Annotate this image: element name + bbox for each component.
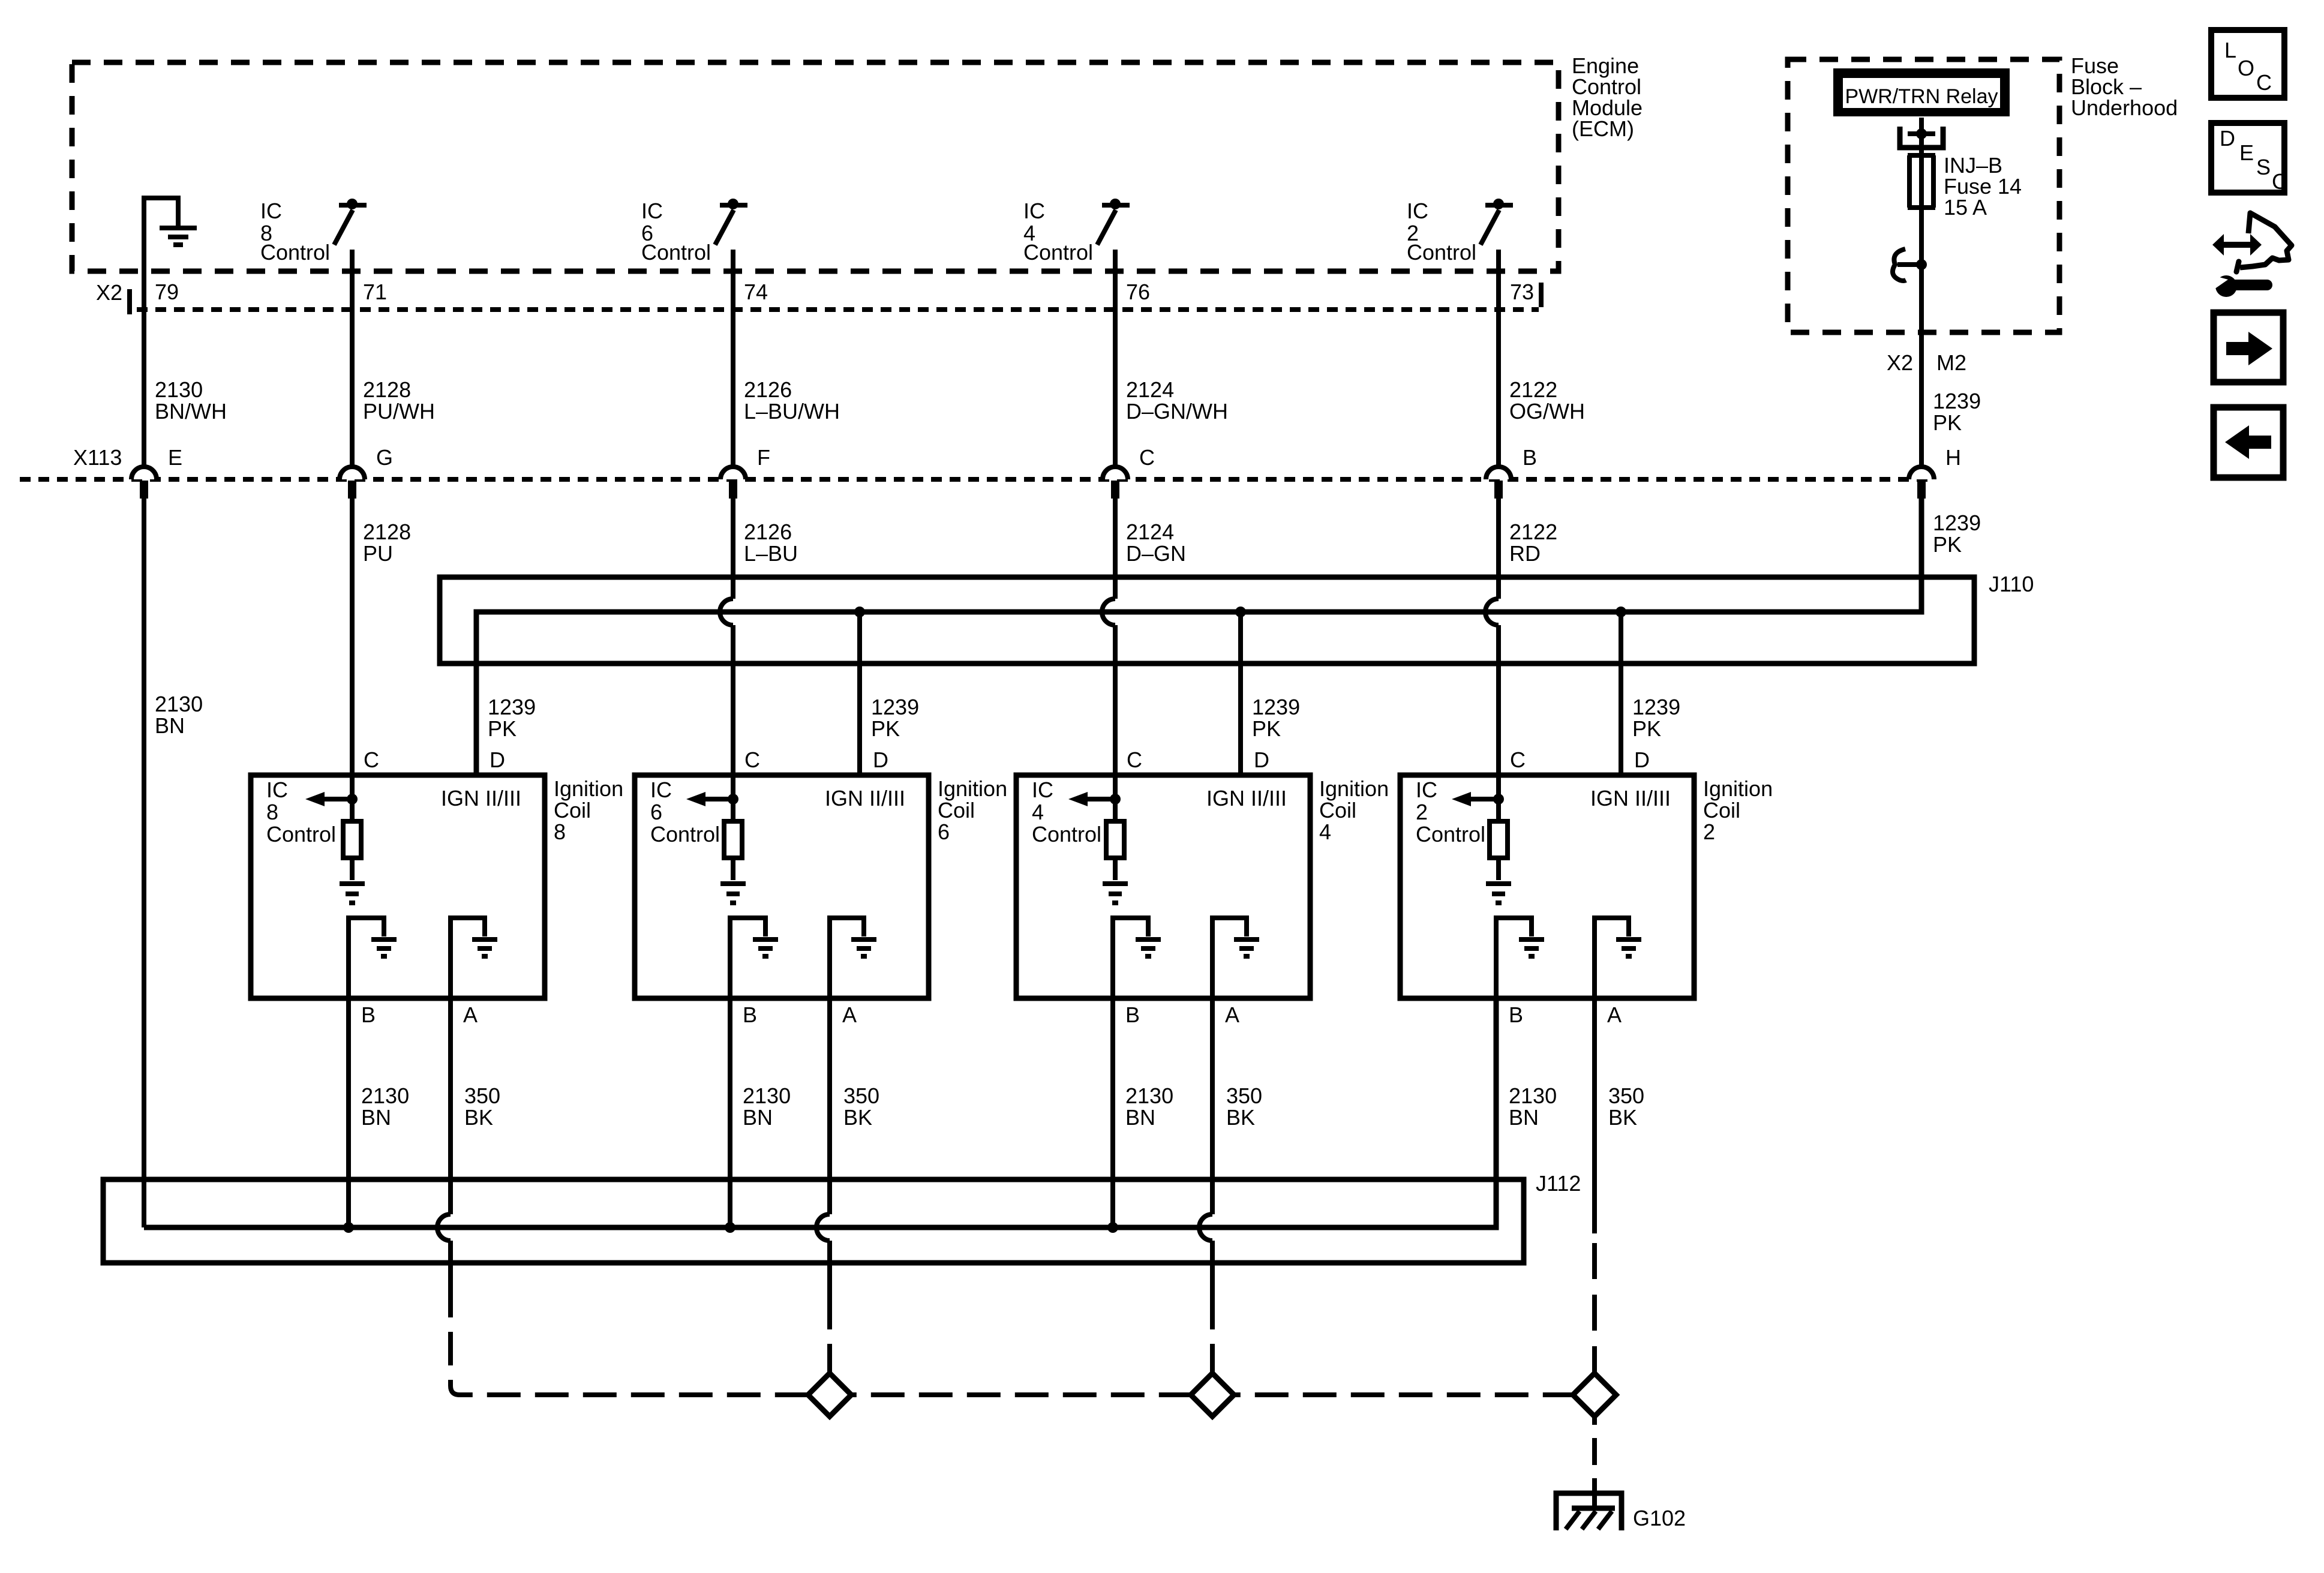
svg-text:B: B [743,1002,757,1027]
svg-text:8: 8 [266,800,278,824]
svg-text:F: F [757,445,770,470]
svg-text:IGN II/III: IGN II/III [1590,786,1671,810]
svg-text:IGN II/III: IGN II/III [1206,786,1287,810]
connector pin X113-G [340,445,393,499]
label IC 4 Control [1023,199,1093,265]
svg-text:76: 76 [1126,280,1150,304]
svg-text:IC: IC [641,199,663,223]
wire 2130 BN/WH (pin E) [144,271,227,466]
svg-text:BK: BK [1608,1105,1637,1130]
wire 2124 D&#8211;GN/WH (pin C) [1115,250,1228,466]
svg-text:J110: J110 [1989,572,2034,596]
splice J112 bus ring [103,1171,1581,1263]
label 1239 PK [1252,695,1300,741]
label 1239 PK [871,695,919,741]
wire 2122 OG/WH (pin B) [1499,250,1585,466]
label IC 2 Control [1407,199,1476,265]
wire 350 BK from coil 8 pin A [437,998,500,1296]
wire 1239 PK inner rail J110 [476,499,1921,775]
svg-text:A: A [842,1002,857,1027]
connector X2 row (ECM) [96,280,1541,314]
svg-text:G: G [376,445,393,470]
svg-text:Ignition: Ignition [1319,776,1389,801]
wire 350 BK from coil 2 pin A [1595,998,1644,1233]
coil 2 secondary ground A side [1595,918,1641,998]
coil 6 secondary ground B side [730,918,778,998]
wire 2122 RD to coil [1485,499,1557,775]
svg-text:1239: 1239 [871,695,919,719]
wire 2126 L&#8211;BU to coil [720,499,798,775]
svg-text:D–GN/WH: D–GN/WH [1126,399,1228,424]
connector pin X113-B [1486,445,1537,499]
coil 8 secondary ground B side [349,918,397,998]
svg-text:C: C [1510,748,1526,772]
svg-text:BN/WH: BN/WH [155,399,227,424]
connector pin X113-H [1909,445,1961,499]
wire 2124 D&#8211;GN to coil [1102,499,1186,775]
coil 8 secondary ground A side [451,918,497,998]
svg-text:E: E [168,445,182,470]
svg-text:Control: Control [641,240,711,265]
svg-text:D: D [873,748,888,772]
svg-text:PK: PK [871,716,900,741]
wire 1239 PK labels (feed) [1933,389,1981,435]
label 1239 PK [1632,695,1680,741]
svg-text:D–GN: D–GN [1126,541,1186,566]
wire 2130 BN from coil 4 pin B [1113,998,1173,1227]
icon DESC [2211,123,2287,194]
svg-text:PK: PK [488,716,517,741]
svg-text:O: O [2238,56,2254,80]
svg-text:2130: 2130 [1509,1083,1557,1108]
svg-text:IC: IC [266,778,288,802]
wire 2130 BN (left, to J112) [144,499,203,1227]
coil 4 primary input, arrow, resistor, ground [1068,775,1128,903]
svg-text:X2: X2 [1887,350,1913,375]
splice diamond S1383 on 350 BK [808,1373,851,1416]
svg-text:C: C [364,748,379,772]
svg-text:D: D [1254,748,1269,772]
wire 2130 BN from coil 8 pin B [349,998,409,1227]
svg-text:PK: PK [1632,716,1661,741]
svg-text:IC: IC [1407,199,1428,223]
svg-text:2130: 2130 [743,1083,791,1108]
wire 2130 BN inner rail J112 [144,998,1496,1227]
svg-text:(ECM): (ECM) [1572,116,1634,141]
connector pin X113-E [131,445,182,499]
svg-text:6: 6 [650,800,662,824]
svg-text:PU: PU [363,541,393,566]
svg-text:1239: 1239 [1933,511,1981,535]
svg-text:2130: 2130 [155,692,203,716]
svg-text:350: 350 [1226,1083,1262,1108]
label 1239 PK [488,695,536,741]
svg-text:1239: 1239 [1252,695,1300,719]
svg-text:IC: IC [650,778,672,802]
svg-text:71: 71 [363,280,387,304]
svg-text:IC: IC [260,199,282,223]
switch IC 8 Control (ECM driver) [334,199,367,245]
svg-text:L: L [2224,38,2236,62]
svg-text:2: 2 [1703,819,1715,844]
svg-text:J112: J112 [1536,1171,1581,1196]
coil 6 primary input, arrow, resistor, ground [686,775,746,903]
svg-text:BK: BK [1226,1105,1255,1130]
svg-text:IGN II/III: IGN II/III [825,786,905,810]
coil 4 secondary ground A side [1212,918,1259,998]
svg-text:B: B [1509,1002,1523,1027]
ECM label [1572,53,1643,141]
junction dot J112 (coil 4 pin B) [1107,1222,1118,1233]
junction dot J110 / wire 1239 PK drop to coil 2 pin D [1616,607,1626,775]
svg-text:2124: 2124 [1126,377,1174,402]
svg-text:BN: BN [1125,1105,1155,1130]
svg-text:1239: 1239 [1632,695,1680,719]
svg-text:BK: BK [464,1105,493,1130]
svg-text:2: 2 [1416,800,1428,824]
svg-text:H: H [1945,445,1961,470]
svg-text:15 A: 15 A [1944,195,1987,220]
svg-text:1239: 1239 [488,695,536,719]
svg-text:D: D [490,748,505,772]
connector pin X113-C [1103,445,1155,499]
svg-text:2130: 2130 [155,377,203,402]
svg-text:350: 350 [1608,1083,1644,1108]
svg-text:Coil: Coil [1703,798,1740,822]
connector pin X113-F [720,445,770,499]
svg-text:2130: 2130 [361,1083,409,1108]
svg-text:C: C [1127,748,1142,772]
svg-text:G102: G102 [1633,1506,1686,1530]
svg-text:Ignition: Ignition [1703,776,1773,801]
coil 2 labels [1416,748,1773,1027]
svg-text:C: C [1139,445,1155,470]
svg-text:Coil: Coil [938,798,975,822]
svg-text:2122: 2122 [1509,377,1557,402]
icon arrow right [2214,313,2283,382]
svg-text:A: A [1225,1002,1239,1027]
svg-text:4: 4 [1032,800,1044,824]
coil 2 primary input, arrow, resistor, ground [1452,775,1511,903]
junction dot J110 / wire 1239 PK drop to coil 4 pin D [1235,607,1246,775]
svg-text:BN: BN [743,1105,773,1130]
svg-text:L–BU: L–BU [744,541,798,566]
coil 6 secondary ground A side [830,918,876,998]
junction dot J112 (coil 8 pin B) [343,1222,354,1233]
svg-text:OG/WH: OG/WH [1509,399,1585,424]
svg-text:350: 350 [843,1083,879,1108]
svg-text:2128: 2128 [363,520,411,544]
svg-text:2126: 2126 [744,520,792,544]
svg-text:E: E [2239,140,2254,165]
icon component view (arrow + outline + wrench) [2211,213,2292,297]
svg-text:D: D [2220,126,2235,151]
svg-text:IGN II/III: IGN II/III [441,786,521,810]
label IC 6 Control [641,199,711,265]
svg-text:73: 73 [1510,280,1534,304]
svg-text:BN: BN [155,713,185,738]
relay output terminal [1900,127,1943,148]
coil 8 primary input, arrow, resistor, ground [305,775,365,903]
wire 350 BK dashed segments below J112 [451,1243,1595,1395]
svg-text:L–BU/WH: L–BU/WH [744,399,840,424]
fuse block box (Fuse Block - Underhood) [1788,59,2059,332]
svg-text:PK: PK [1252,716,1281,741]
coil 8 labels [266,748,623,1027]
svg-text:IC: IC [1416,778,1437,802]
junction dot J110 / wire 1239 PK drop to coil 6 pin D [854,607,865,775]
svg-text:6: 6 [938,819,950,844]
splice diamond S2658 on 350 BK [1573,1373,1616,1416]
svg-text:Ignition: Ignition [554,776,623,801]
svg-text:BK: BK [843,1105,872,1130]
svg-text:Control: Control [1416,822,1485,846]
svg-text:Underhood: Underhood [2071,95,2178,120]
coil 4 secondary ground B side [1113,918,1161,998]
svg-text:350: 350 [464,1083,500,1108]
ignition coil 8 box [251,775,545,998]
svg-text:Control: Control [260,240,330,265]
svg-text:Coil: Coil [554,798,591,822]
in-line clip connector [1893,249,1927,281]
wire relay to fuse block exit [1919,118,1924,466]
svg-text:PK: PK [1933,532,1962,557]
svg-text:Control: Control [650,822,720,846]
icon arrow left [2214,407,2283,478]
ignition coil 4 box [1016,775,1310,998]
ignition coil 2 box [1400,775,1694,998]
relay PWR/TRN Relay [1833,68,2010,116]
svg-text:Control: Control [1407,240,1476,265]
svg-text:B: B [361,1002,376,1027]
svg-text:8: 8 [554,819,566,844]
svg-text:D: D [1634,748,1650,772]
svg-text:M2: M2 [1936,350,1966,375]
svg-text:Control: Control [1032,822,1101,846]
svg-text:C: C [744,748,760,772]
wire 2128 PU/WH (pin G) [352,250,435,466]
svg-text:2128: 2128 [363,377,411,402]
splice diamond S2021 on 350 BK [1191,1373,1234,1416]
label IC 8 Control [260,199,330,265]
switch IC 6 Control (ECM driver) [715,199,747,245]
svg-text:A: A [1607,1002,1622,1027]
ignition coil 6 box [635,775,929,998]
fuse block label [2071,53,2178,120]
svg-text:74: 74 [744,280,768,304]
coil 2 secondary ground B side [1496,918,1544,998]
X2 M2 pin labels (fuse block) [1887,350,1966,375]
ground G102 [1556,1493,1686,1530]
wire 350 BK from coil 6 pin A [816,998,879,1296]
svg-text:Control: Control [1023,240,1093,265]
svg-text:79: 79 [155,280,179,304]
svg-text:C: C [2272,169,2287,194]
svg-text:PK: PK [1933,410,1962,435]
fuse INJ-B Fuse 14 15 A [1908,153,2022,220]
svg-text:Ignition: Ignition [938,776,1007,801]
switch IC 2 Control (ECM driver) [1481,199,1513,245]
svg-text:2126: 2126 [744,377,792,402]
svg-text:1239: 1239 [1933,389,1981,413]
wire 2128 PU to coil 8 [352,499,411,775]
connector X113 row [20,445,1935,479]
ground (ECM internal) [144,198,197,271]
splice J110 bus ring [440,572,2034,664]
svg-text:A: A [463,1002,478,1027]
coil 6 labels [650,748,1007,1027]
wire 350 BK from coil 4 pin A [1199,998,1262,1296]
switch IC 4 Control (ECM driver) [1097,199,1130,245]
svg-text:IC: IC [1023,199,1045,223]
svg-text:PWR/TRN Relay: PWR/TRN Relay [1845,85,1998,108]
svg-text:X113: X113 [73,445,122,470]
svg-text:B: B [1523,445,1537,470]
coil 4 labels [1032,748,1389,1027]
svg-text:BN: BN [361,1105,391,1130]
svg-text:Control: Control [266,822,336,846]
svg-text:S: S [2256,155,2271,179]
junction dot J112 (coil 6 pin B) [725,1222,735,1233]
svg-text:RD: RD [1509,541,1541,566]
wire 2130 BN from coil 6 pin B [730,998,791,1227]
svg-text:Coil: Coil [1319,798,1356,822]
svg-text:B: B [1125,1002,1140,1027]
wire to G102 [1592,1416,1597,1508]
svg-text:PU/WH: PU/WH [363,399,435,424]
wire 2130 BN from coil 2 pin B [1496,998,1557,1227]
svg-text:IC: IC [1032,778,1053,802]
ECM module box [72,62,1559,271]
wire 2126 L&#8211;BU/WH (pin F) [733,250,840,466]
X2 pin numbers [155,280,1534,304]
icon LOC [2211,30,2284,98]
svg-text:2130: 2130 [1125,1083,1173,1108]
svg-text:4: 4 [1319,819,1331,844]
svg-text:2122: 2122 [1509,520,1557,544]
svg-text:2124: 2124 [1126,520,1174,544]
svg-text:X2: X2 [96,280,122,305]
svg-text:C: C [2256,70,2272,95]
svg-text:BN: BN [1509,1105,1539,1130]
